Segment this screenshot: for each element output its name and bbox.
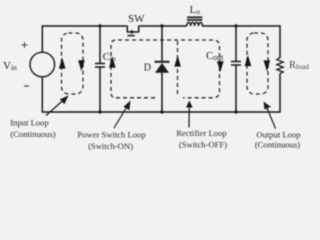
junction bottom of D [160, 110, 163, 113]
svg-text:(Switch-ON): (Switch-ON) [88, 141, 133, 151]
pointer arrow for Rectifier Loop label [188, 107, 190, 128]
diode D branch wire upper [161, 25, 163, 62]
inductor Lo core bars [187, 16, 202, 18]
svg-text:Rectifier Loop: Rectifier Loop [176, 128, 226, 138]
resistor Rload zigzag [277, 58, 283, 74]
capacitor Cin branch wire lower [99, 67, 101, 113]
switch SW (MOSFET symbol) [127, 26, 140, 36]
output loop down arrowhead [264, 60, 271, 71]
svg-text:Rload: Rload [289, 60, 309, 71]
svg-text:Cin: Cin [103, 52, 116, 63]
wire top rail left segment (Vin top to SW) [42, 25, 127, 27]
svg-text:Output Loop: Output Loop [256, 129, 300, 139]
wire top rail right segment (Lo to top-right corner) [202, 25, 280, 27]
junction top of Cout [234, 24, 237, 27]
power switch loop dashed path [111, 40, 220, 98]
junction bottom of Cout [234, 110, 237, 113]
pointer arrow for Power Switch Loop label [114, 107, 127, 129]
input loop down arrowhead [78, 60, 85, 71]
junction bottom of Cin [98, 110, 101, 113]
inductor Lo coil [187, 22, 203, 26]
Vin minus sign [24, 85, 29, 87]
capacitor Cin plates [95, 63, 105, 65]
pointer arrow for Input Loop label [46, 100, 64, 116]
rectifier loop up arrowhead [174, 56, 181, 67]
svg-text:Power Switch Loop: Power Switch Loop [77, 129, 145, 139]
output loop dashed rectangle [247, 33, 268, 94]
capacitor Cout plates [231, 61, 241, 63]
svg-text:(Continuous): (Continuous) [255, 139, 300, 149]
svg-text:(Switch-OFF): (Switch-OFF) [179, 139, 227, 149]
power switch loop up arrowhead [109, 57, 116, 68]
pointer arrow for Output Loop label [267, 108, 276, 129]
diode D triangle [155, 63, 169, 73]
capacitor Cout branch wire upper [235, 25, 237, 61]
junction top of D [160, 24, 163, 27]
input loop dashed rectangle [62, 33, 84, 94]
voltage source Vin circle [30, 52, 55, 77]
svg-text:SW: SW [128, 13, 145, 25]
svg-text:(Continuous): (Continuous) [10, 129, 55, 139]
input loop up arrowhead [59, 58, 66, 69]
wire left branch lower (Vin - to bottom rail) [41, 77, 43, 113]
wire left branch upper (top rail to Vin +) [41, 25, 43, 52]
diode D branch wire lower [161, 73, 163, 113]
SW arrow on channel [131, 30, 135, 34]
output loop up arrowhead [245, 55, 252, 66]
diode D cathode bar [155, 61, 170, 63]
Vin plus sign [22, 42, 28, 48]
rectifier loop down arrowhead [217, 61, 224, 72]
rectifier loop left dashed edge [177, 41, 179, 97]
wire bottom rail [42, 111, 280, 113]
svg-text:Input Loop: Input Loop [10, 117, 48, 127]
svg-text:D: D [144, 63, 151, 74]
capacitor Cin branch wire upper [99, 25, 101, 63]
resistor Rload wire upper [279, 25, 281, 58]
svg-text:Cout: Cout [206, 51, 224, 62]
junction top of Cin [98, 24, 101, 27]
resistor Rload wire lower [279, 74, 281, 113]
wire top rail middle segment (SW to Lo) [140, 25, 187, 27]
capacitor Cout branch wire lower [235, 65, 237, 113]
